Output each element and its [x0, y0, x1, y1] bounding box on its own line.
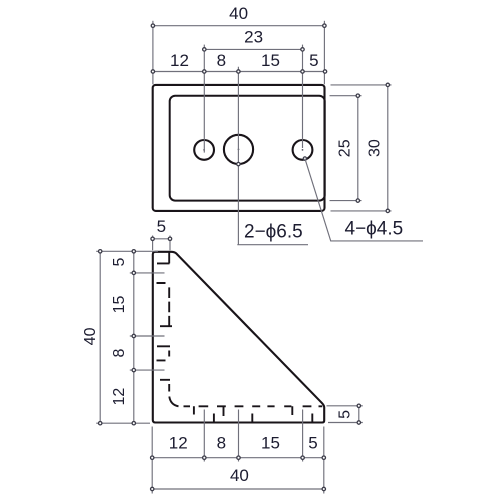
marker brow1 x238.5	[237, 456, 240, 459]
svg-text:15: 15	[261, 51, 280, 70]
marker brow1 x152.2	[151, 456, 154, 459]
svg-text:8: 8	[111, 348, 128, 357]
hidden hole edge ticks on bottom leg	[194, 406, 312, 421]
dimension line 23 (second row)	[204, 48, 302, 50]
center dot hole middle	[238, 149, 240, 151]
extension line right at part top (for 30)	[331, 84, 392, 86]
extension line at side view bottom edge	[96, 422, 150, 424]
marker row1 left	[151, 24, 154, 27]
center line hole2 side view	[130, 335, 165, 337]
marker row3 x238.4	[237, 70, 240, 73]
marker brow1 x204.3	[203, 456, 206, 459]
marker 25 top	[356, 94, 359, 97]
leader marker on right hole edge	[303, 157, 306, 160]
marker brow2 left	[151, 487, 154, 490]
marker brow1 x302.6	[301, 456, 304, 459]
underline of label 2-phi6.5	[237, 244, 308, 246]
extension line right at inner top (for 25)	[330, 95, 362, 97]
center line hole3 bottom leg	[302, 410, 304, 462]
svg-text:40: 40	[229, 4, 248, 23]
marker 30 bottom	[386, 209, 389, 212]
marker left inner y336	[132, 334, 135, 337]
marker top5 right	[168, 237, 171, 240]
center line hole1 bottom leg	[203, 410, 205, 462]
svg-text:25: 25	[337, 139, 354, 157]
svg-text:12: 12	[170, 51, 189, 70]
dimension line 30 (vertical)	[387, 85, 389, 211]
marker 30 top	[386, 83, 389, 86]
marker left inner y370	[132, 368, 135, 371]
center dot hole left	[203, 149, 205, 151]
hole middle (phi 6.5)	[224, 135, 253, 164]
svg-text:40: 40	[230, 466, 249, 485]
marker row2 right	[301, 48, 304, 51]
dimension line 12/8/15/5 (bottom row)	[152, 457, 324, 459]
svg-text:5: 5	[336, 410, 353, 419]
extension line right 5 top (side view)	[327, 405, 363, 407]
center line hole2 bottom leg	[238, 410, 240, 462]
svg-text:2−ϕ6.5: 2−ϕ6.5	[244, 222, 303, 243]
marker brow2 right	[322, 487, 325, 490]
hidden line: inner corner arc (dashed)	[169, 397, 178, 407]
marker row3 x302.5	[301, 70, 304, 73]
marker brow1 x323.8	[322, 456, 325, 459]
extension line bottom left corner down	[151, 427, 153, 494]
dimension line 5 right (side view)	[358, 404, 360, 425]
hidden line: inner wall vertical (dashed)	[168, 252, 170, 391]
svg-text:30: 30	[366, 139, 383, 157]
extension line right for top 5 dim	[169, 236, 171, 251]
marker right5 top	[357, 404, 360, 407]
center dot hole right	[302, 149, 304, 151]
marker row1 right	[323, 24, 326, 27]
dimension line 40 (bottom)	[152, 488, 324, 490]
svg-text:8: 8	[217, 434, 226, 453]
extension line left of top view (x=152.9)	[152, 21, 154, 85]
dimension line 5/15/8/12 (left inner)	[133, 251, 135, 423]
marker left inner y272.9	[132, 271, 135, 274]
svg-text:5: 5	[308, 434, 317, 453]
marker left inner y251.3	[132, 250, 135, 253]
dimension line 5 (top of side view)	[151, 238, 172, 240]
marker row3 x204.3	[203, 70, 206, 73]
center line hole1 side view	[130, 272, 165, 274]
svg-text:5: 5	[111, 258, 128, 267]
leader marker on middle hole bottom edge	[237, 162, 240, 165]
marker right5 bottom	[357, 421, 360, 424]
svg-text:40: 40	[82, 327, 99, 345]
marker left40 top	[99, 250, 102, 253]
svg-text:4−ϕ4.5: 4−ϕ4.5	[345, 218, 404, 239]
marker left inner y423.2	[132, 422, 135, 425]
extension line bottom right corner down	[323, 427, 325, 494]
svg-text:15: 15	[111, 296, 128, 314]
hidden hole edge ticks on vertical leg	[157, 263, 173, 379]
marker top5 left	[151, 237, 154, 240]
extension line left for top 5 dim	[152, 236, 154, 251]
top view: inner top-face edge outline	[170, 96, 325, 201]
side view: outline of L bracket	[153, 252, 324, 423]
center line + leader for middle hole down to label	[237, 67, 239, 245]
marker row3 x152.9	[151, 70, 154, 73]
marker 25 bottom	[356, 199, 359, 202]
svg-text:12: 12	[111, 388, 128, 406]
hole right (phi 4.5)	[293, 140, 313, 160]
center line hole3 side view	[130, 369, 165, 371]
dimension line 40 (left outer)	[99, 251, 101, 423]
center line hole right	[302, 45, 304, 148]
hidden line: inner wall horizontal (dashed)	[184, 405, 323, 407]
svg-text:12: 12	[169, 434, 188, 453]
extension line right at inner bottom (for 25)	[330, 200, 362, 202]
leader line to 4-phi4.5 label	[305, 159, 423, 241]
dimension line 40 (top row)	[153, 25, 325, 27]
center line hole left	[203, 45, 205, 153]
svg-text:8: 8	[217, 51, 226, 70]
svg-text:23: 23	[244, 28, 263, 47]
marker row2 left	[203, 48, 206, 51]
extension line at side view top edge	[96, 250, 158, 252]
hole left (phi 4.5)	[194, 140, 214, 160]
svg-text:5: 5	[309, 51, 318, 70]
extension line right at part bottom (for 30)	[331, 210, 392, 212]
svg-text:5: 5	[157, 217, 166, 236]
extension line right 5 bottom (side view)	[328, 422, 363, 424]
top view: outer outline of bracket base plate	[153, 85, 325, 211]
dimension line 25 (vertical)	[357, 96, 359, 201]
extension line right of top view (x=324.4)	[323, 21, 325, 85]
marker left40 bottom	[99, 422, 102, 425]
marker row3 x325	[323, 70, 326, 73]
dimension line 12/8/15/5 (third row)	[153, 71, 325, 73]
svg-text:15: 15	[261, 434, 280, 453]
